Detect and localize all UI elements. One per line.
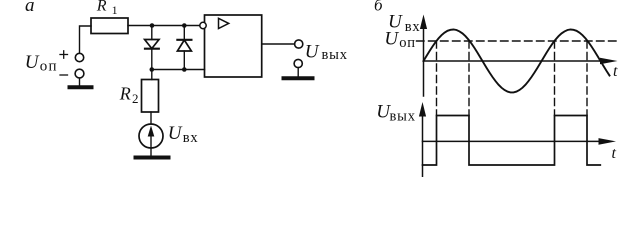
terminal Uop - xyxy=(75,69,84,78)
minus sign xyxy=(60,74,68,76)
top plot t-axis xyxy=(424,60,604,62)
node: top rail junction at D1 xyxy=(150,23,155,28)
ground at output xyxy=(284,76,313,80)
bottom plot t-axis xyxy=(423,140,602,142)
svg-text:R: R xyxy=(119,83,131,103)
wire source to ground xyxy=(150,148,152,156)
diode VD2 (cathode top, anode bottom) xyxy=(177,26,191,70)
resistor R2 xyxy=(142,80,159,113)
output wire xyxy=(262,43,295,45)
dashed vertical at t3 xyxy=(554,41,556,116)
svg-text:б: б xyxy=(374,0,383,15)
comparator U1 box xyxy=(205,15,262,77)
svg-text:вх: вх xyxy=(183,130,199,146)
plus sign xyxy=(60,51,68,58)
dashed vertical at t2 xyxy=(468,41,470,116)
svg-text:U: U xyxy=(25,52,40,73)
node: top rail junction at D2 xyxy=(182,23,187,28)
terminal lower (grounded) xyxy=(294,59,302,67)
node: bottom rail junction at R2 xyxy=(150,67,155,72)
comparator triangle symbol xyxy=(219,18,229,28)
wire junction to R2 xyxy=(151,70,153,80)
diode VD1 (anode top, cathode bottom) xyxy=(145,26,159,70)
svg-text:вх: вх xyxy=(405,19,421,35)
svg-text:U: U xyxy=(168,123,183,144)
source arrow xyxy=(150,129,152,147)
sine wave Uvx xyxy=(424,30,610,93)
svg-text:вых: вых xyxy=(390,108,416,124)
terminal Uop + xyxy=(75,53,83,61)
bottom plot y-axis xyxy=(422,110,424,177)
bottom rail wire to comparator xyxy=(152,69,205,71)
svg-text:t: t xyxy=(612,145,617,162)
dashed vertical at t4 xyxy=(586,41,588,116)
dashed Uop level line xyxy=(417,40,618,42)
ground under Uop terminal xyxy=(70,85,92,89)
svg-text:вых: вых xyxy=(322,47,348,63)
svg-text:U: U xyxy=(305,42,320,63)
square wave Uvyh xyxy=(423,116,601,166)
top plot y-axis xyxy=(423,22,425,96)
svg-text:оп: оп xyxy=(40,58,58,74)
dashed vertical at t1 xyxy=(436,41,438,116)
svg-text:а: а xyxy=(25,0,35,16)
svg-text:оп: оп xyxy=(399,35,416,51)
svg-text:2: 2 xyxy=(132,91,139,106)
svg-text:R: R xyxy=(96,0,107,15)
resistor R1 xyxy=(91,18,128,34)
comparator input bubble xyxy=(200,22,206,28)
wire from Uop+ terminal to R1 xyxy=(80,26,92,53)
svg-text:U: U xyxy=(384,29,399,50)
ground under source xyxy=(136,156,169,160)
wire R2 to source xyxy=(150,112,152,124)
wire lower terminal to ground xyxy=(297,68,299,76)
wire R1 to comparator input xyxy=(128,25,200,27)
terminal Uvyh xyxy=(295,40,303,48)
wire terminal to ground xyxy=(79,78,81,86)
node: bottom rail junction at D2 xyxy=(182,67,187,72)
svg-text:t: t xyxy=(613,63,618,80)
source Uvx circle xyxy=(139,124,163,148)
svg-text:1: 1 xyxy=(112,3,118,17)
